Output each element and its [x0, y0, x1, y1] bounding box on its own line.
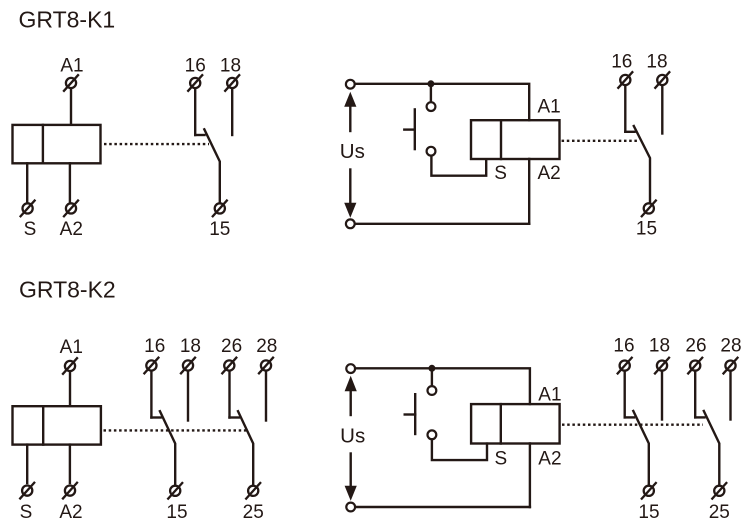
Us up arrow shaft (K2)	[350, 390, 352, 415]
relay coil box (K2 left)	[13, 406, 101, 444]
svg-text:A1: A1	[60, 56, 83, 77]
wire box A2 down (K2 right)	[529, 444, 531, 508]
supply terminal top (K2 right)	[346, 364, 355, 373]
push button actuator bar (K1 right)	[414, 109, 416, 149]
terminal 28 (K2 right)	[723, 357, 739, 374]
terminal 28 (K2 left)	[258, 357, 274, 374]
svg-text:16: 16	[613, 336, 634, 357]
Us down arrow shaft	[349, 170, 351, 205]
svg-text:16: 16	[144, 336, 165, 357]
svg-text:Us: Us	[340, 425, 365, 448]
wire contact 18 (K1 right)	[661, 87, 663, 133]
terminal 18 (K2 left)	[180, 357, 196, 374]
terminal 16 (K1 left)	[187, 74, 203, 91]
push button actuator bar (K2 right)	[414, 394, 416, 434]
wire contact 28 (K2 left)	[265, 373, 267, 421]
wire box A2 down (K1 right)	[528, 159, 530, 224]
Us down arrow head (K2)	[345, 486, 357, 501]
Us up arrow shaft	[349, 106, 351, 132]
Us down arrow head	[344, 203, 356, 218]
mechanical link dotted (K1 left)	[104, 143, 209, 145]
svg-text:A2: A2	[60, 219, 83, 240]
switch blade 15-16 (K1 left)	[204, 129, 220, 202]
svg-text:GRT8-K1: GRT8-K1	[19, 7, 116, 33]
wire contact 26 (K2 left)	[228, 373, 230, 418]
switch blade 15-16 (K1 right)	[634, 126, 650, 202]
svg-text:15: 15	[636, 219, 657, 240]
Us up arrow head (K2)	[345, 376, 357, 391]
svg-text:18: 18	[646, 51, 667, 72]
svg-text:18: 18	[220, 56, 241, 77]
bottom supply wire (K2 right)	[355, 506, 530, 508]
wire contact 16 (K1 left)	[194, 90, 196, 135]
relay coil box (K1 right)	[471, 120, 560, 159]
relay coil box (K2 right)	[471, 404, 559, 443]
supply terminal top (K1 right)	[346, 80, 355, 89]
push button lower contact (K2 right)	[428, 430, 437, 439]
wire button to S terminal (K1 right)	[431, 156, 486, 176]
svg-text:A2: A2	[59, 502, 82, 523]
coil box divider	[42, 125, 44, 163]
coil box divider (K1 right)	[500, 120, 502, 159]
top supply wire (K1 right)	[355, 84, 530, 120]
switch blade 15-16 (K2 right)	[633, 411, 649, 484]
contact 26 foot (K2 left)	[230, 416, 239, 418]
wire button to S terminal (K2 right)	[432, 439, 487, 460]
terminal A2 (K1 left)	[63, 200, 79, 217]
svg-text:S: S	[494, 163, 507, 184]
wire junction to button (K2 right)	[431, 370, 433, 386]
svg-text:A1: A1	[60, 337, 83, 358]
wire A2 (K2 left)	[69, 445, 71, 483]
svg-text:18: 18	[649, 336, 670, 357]
bottom supply wire (K1 right)	[355, 223, 530, 225]
terminal A1 (K1 left)	[63, 74, 79, 91]
terminal 18 (K2 right)	[654, 357, 670, 374]
supply terminal bottom (K2 right)	[346, 503, 355, 512]
wire contact 16 (K1 right)	[624, 87, 626, 132]
wire contact 28 (K2 right)	[729, 373, 731, 420]
terminal A2 (K2 left)	[62, 482, 78, 499]
terminal 15 (K1 right)	[641, 200, 657, 217]
Us up arrow head	[344, 92, 356, 107]
contact 16 foot (K2 left)	[151, 416, 160, 418]
wire junction to button (K1 right)	[430, 85, 432, 102]
relay coil box (K1 left)	[13, 125, 101, 163]
svg-text:A1: A1	[538, 385, 561, 406]
terminal 15 (K2 left)	[167, 482, 183, 499]
terminal S (K1 left)	[20, 200, 36, 217]
contact 26 foot (K2 right)	[695, 416, 704, 418]
mechanical link dotted (K2 right)	[562, 424, 703, 426]
coil box divider (K2 right)	[500, 404, 502, 443]
svg-text:S: S	[20, 502, 33, 523]
wire A1 to coil box (K2 left)	[69, 373, 71, 405]
svg-text:25: 25	[243, 502, 264, 523]
terminal 15 (K1 left)	[212, 200, 228, 217]
wire contact 26 (K2 right)	[694, 373, 696, 418]
switch blade 15-16 (K2 left)	[160, 411, 175, 484]
wire contact 18 (K2 left)	[187, 373, 189, 421]
svg-text:S: S	[24, 219, 37, 240]
svg-text:A1: A1	[538, 97, 561, 118]
supply terminal bottom (K1 right)	[346, 219, 355, 228]
svg-text:28: 28	[720, 336, 741, 357]
terminal S (K2 left)	[19, 482, 35, 499]
svg-text:Us: Us	[340, 140, 365, 163]
wire A1 to coil box	[70, 90, 72, 124]
svg-text:GRT8-K2: GRT8-K2	[19, 277, 116, 303]
svg-text:25: 25	[709, 502, 730, 523]
wire S (K2 left)	[26, 445, 28, 483]
wire S (K1 left)	[26, 163, 28, 202]
terminal 16 (K1 right)	[618, 71, 634, 88]
svg-text:16: 16	[185, 56, 206, 77]
svg-text:28: 28	[256, 336, 277, 357]
terminal 18 (K1 right)	[655, 71, 671, 88]
terminal 25 (K2 left)	[245, 482, 261, 499]
push button upper contact (K2 right)	[428, 386, 437, 395]
wire A2 (K1 left)	[69, 163, 71, 202]
terminal 15 (K2 right)	[641, 482, 657, 499]
terminal 25 (K2 right)	[712, 482, 728, 499]
switch blade 25-26 (K2 left)	[238, 411, 253, 484]
top supply wire (K2 right)	[355, 368, 530, 404]
terminal 26 (K2 right)	[687, 357, 703, 374]
svg-text:16: 16	[611, 51, 632, 72]
contact 16 foot (K2 right)	[625, 416, 634, 418]
svg-text:26: 26	[685, 336, 706, 357]
coil box divider (K2 left)	[42, 406, 44, 444]
svg-text:15: 15	[166, 502, 187, 523]
terminal 18 (K1 left)	[224, 74, 240, 91]
svg-text:A2: A2	[538, 449, 561, 470]
terminal A1 (K2 left)	[62, 357, 78, 374]
svg-text:15: 15	[209, 219, 230, 240]
junction node (K1 right)	[427, 80, 434, 87]
terminal 26 (K2 left)	[222, 357, 238, 374]
terminal 16 (K2 left)	[144, 357, 160, 374]
push button lower contact (K1 right)	[427, 147, 436, 156]
push button upper contact (K1 right)	[427, 102, 436, 111]
switch blade 25-26 (K2 right)	[704, 411, 720, 484]
Us down arrow shaft (K2)	[350, 454, 352, 488]
mechanical link dotted (K1 right)	[562, 140, 639, 142]
svg-text:A2: A2	[538, 163, 561, 184]
svg-text:S: S	[494, 449, 507, 470]
contact 16 foot	[195, 134, 204, 136]
svg-text:18: 18	[180, 336, 201, 357]
push button actuator tick (K2 right)	[405, 413, 416, 415]
contact 16 foot (K1 right)	[625, 131, 634, 133]
svg-text:15: 15	[638, 502, 659, 523]
wire contact 18 (K1 left)	[231, 90, 233, 135]
wire contact 16 (K2 right)	[624, 373, 626, 418]
terminal 16 (K2 right)	[617, 357, 633, 374]
wire contact 16 (K2 left)	[150, 373, 152, 418]
svg-text:26: 26	[221, 336, 242, 357]
junction node (K2 right)	[428, 365, 435, 372]
wire contact 18 (K2 right)	[661, 373, 663, 420]
push button actuator tick (K1 right)	[404, 128, 415, 130]
mechanical link dotted (K2 left)	[104, 429, 248, 431]
